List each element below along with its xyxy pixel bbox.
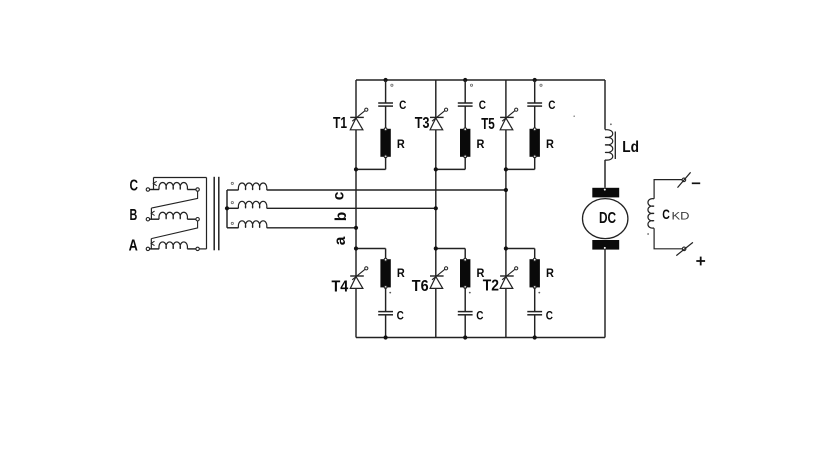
svg-text:KD: KD [672,210,690,222]
svg-text:C: C [476,308,483,322]
svg-text:T6: T6 [412,278,429,295]
svg-text:R: R [397,266,405,280]
svg-text:b: b [333,212,350,221]
svg-text:DC: DC [599,210,616,227]
svg-text:C: C [548,98,555,112]
svg-text:C: C [479,98,486,112]
svg-text:R: R [477,137,485,151]
svg-text:R: R [397,137,405,151]
svg-text:T1: T1 [333,115,347,132]
svg-text:A: A [129,238,139,255]
svg-text:C: C [397,308,404,322]
svg-text:R: R [546,266,554,280]
svg-text:T2: T2 [483,277,499,294]
svg-text:Ld: Ld [622,139,639,156]
svg-text:T4: T4 [332,278,349,295]
svg-text:T5: T5 [481,116,495,133]
svg-text:C: C [399,98,406,112]
svg-text:a: a [332,236,349,245]
svg-text:C: C [662,206,670,222]
svg-text:C: C [546,308,553,322]
svg-text:c: c [331,191,348,200]
svg-text:C: C [130,178,139,195]
svg-text:B: B [130,207,138,224]
svg-text:R: R [546,137,554,151]
svg-text:T3: T3 [415,115,430,132]
